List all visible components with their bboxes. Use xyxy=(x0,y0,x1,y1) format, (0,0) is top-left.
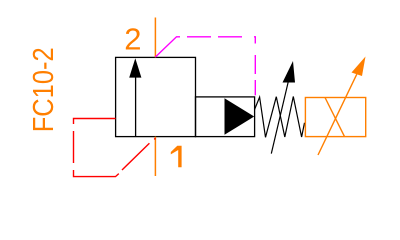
drain line bottom segment (red) xyxy=(74,170,119,177)
port 1 label xyxy=(171,146,182,168)
spring xyxy=(255,97,305,138)
port 2 line xyxy=(154,18,156,58)
check valve box xyxy=(196,97,255,137)
pilot line dash (magenta) xyxy=(218,36,242,38)
pilot line corner (magenta) xyxy=(254,37,255,44)
drain line end dot (red) xyxy=(154,138,155,139)
pilot line diagonal + stub (magenta) xyxy=(155,37,180,57)
pilot line dash (magenta) xyxy=(187,36,211,38)
orifice adjustment arrow xyxy=(318,57,366,156)
svg-text:2: 2 xyxy=(124,22,141,57)
flow arrow inside valve body xyxy=(129,58,141,136)
svg-text:FC10-2: FC10-2 xyxy=(28,47,60,132)
adjustment arrow over spring xyxy=(271,61,295,154)
drain line top segment (red) xyxy=(74,119,116,125)
proportional orifice box xyxy=(305,98,365,137)
port 1 line xyxy=(154,137,156,176)
valve body (main envelope) xyxy=(116,57,196,136)
drain line diagonal dash (red) xyxy=(122,143,149,170)
orifice cross line xyxy=(325,98,345,137)
check valve poppet triangle xyxy=(225,98,255,135)
pilot line dash (magenta) xyxy=(254,55,256,74)
drain line dash (red) xyxy=(73,131,75,163)
pilot line dash (magenta) xyxy=(254,80,256,95)
